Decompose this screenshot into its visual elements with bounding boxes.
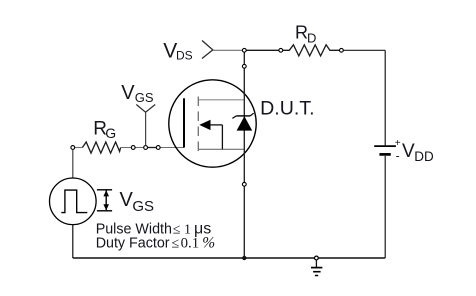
svg-text:GS: GS xyxy=(135,90,154,105)
svg-text:+: + xyxy=(395,138,401,149)
svg-text:%: % xyxy=(202,235,215,252)
svg-text:-: - xyxy=(396,149,400,163)
svg-text:DS: DS xyxy=(176,48,193,62)
svg-text:0.1: 0.1 xyxy=(181,236,200,252)
svg-text:V: V xyxy=(121,82,135,104)
svg-text:V: V xyxy=(402,141,415,162)
svg-text:Duty Factor: Duty Factor xyxy=(96,236,170,252)
svg-text:DD: DD xyxy=(414,149,434,164)
svg-text:≤: ≤ xyxy=(172,237,180,252)
svg-text:D.U.T.: D.U.T. xyxy=(260,97,314,119)
svg-text:G: G xyxy=(105,125,116,141)
svg-text:V: V xyxy=(120,189,134,211)
svg-text:D: D xyxy=(307,31,316,46)
svg-text:≤: ≤ xyxy=(173,223,181,238)
svg-text:GS: GS xyxy=(132,198,154,215)
